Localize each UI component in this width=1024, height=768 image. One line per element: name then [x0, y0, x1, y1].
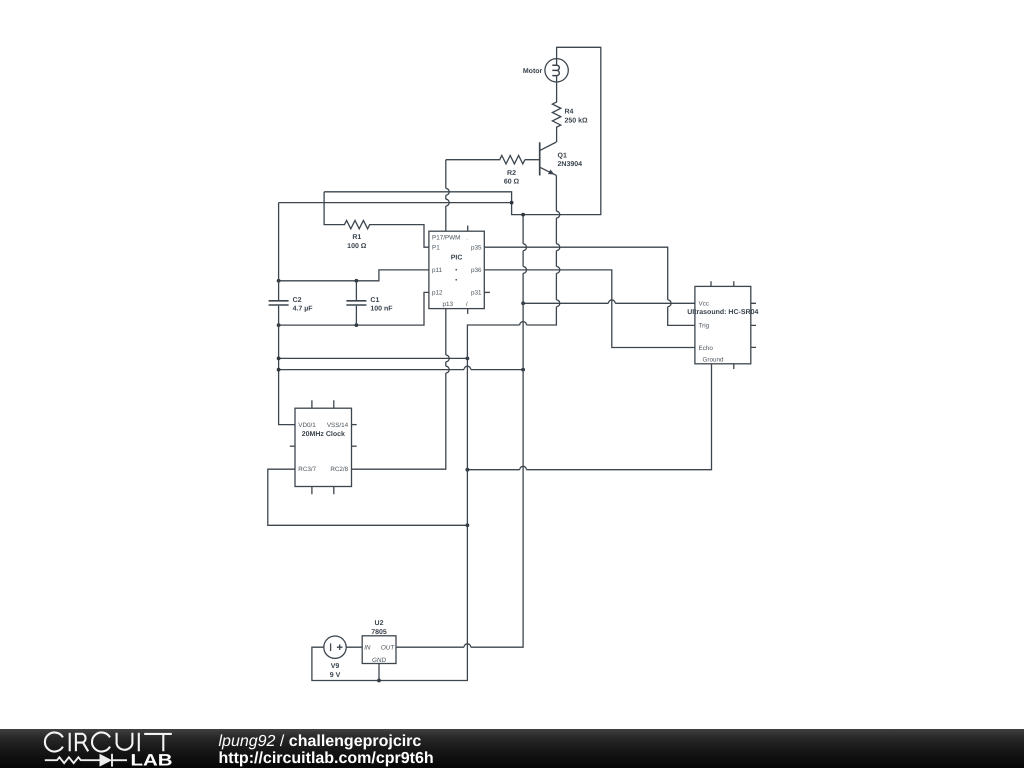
- svg-text:RC3/7: RC3/7: [298, 466, 316, 473]
- pin stub: clock right mid: [352, 445, 357, 447]
- svg-text:/: /: [466, 301, 468, 308]
- svg-text:R1: R1: [352, 234, 361, 241]
- pin stubs: ultrasound right: [751, 303, 756, 347]
- pin stub: clock VSS/14: [352, 424, 357, 426]
- junction: wire B joins vertical: [510, 201, 514, 205]
- svg-text:p13: p13: [442, 301, 453, 308]
- svg-text:U2: U2: [375, 620, 384, 627]
- junction: C1 top: [355, 279, 359, 283]
- wire: OUT to 5V rail up to motor loop, hops over gnd rail and p35/p36: [396, 215, 527, 648]
- wire: p35 to Trig: [484, 247, 695, 325]
- svg-text:C2: C2: [293, 297, 302, 304]
- capacitor C2: [269, 301, 289, 305]
- svg-text:p31: p31: [471, 290, 482, 297]
- svg-text:R4: R4: [565, 109, 574, 116]
- wire: gnd distribution horizontal: [279, 357, 468, 359]
- wire: R1 upper branch: [279, 202, 512, 204]
- svg-text:100 nF: 100 nF: [370, 306, 393, 313]
- svg-text:V9: V9: [331, 663, 340, 670]
- wire: ultrasound Ground pin down and left with hop over 5V rail: [467, 364, 711, 470]
- wire: p12 to C1/C2 bottoms: [279, 292, 429, 325]
- svg-text:http://circuitlab.com/cpr9t6h: http://circuitlab.com/cpr9t6h: [219, 750, 434, 767]
- junction: 5V wire to rail: [521, 368, 525, 372]
- junction: C1 bottom: [355, 323, 359, 327]
- junction: ground wire to gnd rail: [466, 468, 470, 472]
- wire: V+ top loop from motor around to base net: [324, 47, 601, 214]
- svg-text:P17/PWM: P17/PWM: [432, 234, 460, 241]
- junction: right end gnd wire: [466, 357, 470, 361]
- logo resistor+diode symbol: [45, 754, 127, 767]
- footer bar: [0, 729, 1024, 768]
- svg-text:250 kΩ: 250 kΩ: [565, 117, 589, 125]
- svg-text:Q1: Q1: [558, 152, 567, 159]
- op-amp-style IC box: PIC U1: [429, 231, 484, 308]
- motor M1: [545, 59, 568, 82]
- svg-text:9 V: 9 V: [330, 672, 341, 679]
- svg-text:p11: p11: [432, 267, 443, 274]
- svg-text:VSS/14: VSS/14: [327, 422, 349, 429]
- logo CIRCUIT thin letters: [45, 733, 172, 752]
- junction: left end 5V wire: [277, 368, 281, 372]
- svg-text:Ground: Ground: [703, 356, 725, 363]
- pin stub: ultrasound bottom right: [733, 364, 735, 369]
- junction: left end gnd wire: [277, 357, 281, 361]
- svg-text:R2: R2: [507, 170, 516, 177]
- transistor Q1: [525, 142, 557, 176]
- svg-text:p35: p35: [471, 245, 482, 252]
- svg-text:OUT: OUT: [381, 645, 395, 652]
- wire: RC3/7 loop to gnd rail: [268, 469, 468, 525]
- wire: p11 to C1/C2 tops: [279, 270, 429, 281]
- wire: Vcc from 5V rail with hop over echo column: [523, 300, 695, 303]
- IC box: 20MHz Clock: [295, 408, 352, 486]
- wire: p36 to Echo: [484, 270, 695, 348]
- resistor R4: [552, 82, 560, 142]
- resistor R1: [324, 192, 429, 247]
- svg-text:.: .: [466, 234, 468, 241]
- regulator U2 7805: [362, 636, 396, 664]
- svg-text:PIC: PIC: [451, 254, 463, 261]
- svg-text:Ultrasound: HC-SR04: Ultrasound: HC-SR04: [687, 308, 758, 316]
- pin stub: clock left mid: [290, 445, 295, 447]
- svg-text:IN: IN: [364, 645, 371, 652]
- wire: C2 column down to clock VD0/1: [279, 203, 295, 425]
- svg-text:VD0/1: VD0/1: [298, 422, 316, 429]
- junction: 5V rail to motor loop: [521, 213, 525, 217]
- wire: 5V distribution horizontal with hop over gnd rail: [279, 366, 523, 369]
- svg-text:4.7 µF: 4.7 µF: [293, 306, 314, 313]
- svg-text:Echo: Echo: [699, 345, 714, 352]
- capacitor C1: [346, 281, 366, 325]
- junction: C2 top: [277, 279, 281, 283]
- pin stub: PIC top second pin: [467, 226, 469, 232]
- svg-text:Vcc: Vcc: [699, 301, 710, 308]
- svg-text:7805: 7805: [371, 629, 387, 636]
- svg-text:GND: GND: [372, 657, 386, 664]
- pin stubs: clock bottom: [312, 487, 334, 495]
- pin stub: PIC p31: [484, 291, 490, 293]
- IC box: Ultrasound HC-SR04: [695, 286, 751, 363]
- junction: Vcc taps 5V rail: [521, 301, 525, 305]
- wire: emitter/gnd rail with hops, to V9 minus: [312, 175, 560, 680]
- wire: p13 down to RC2/8 with two hops: [352, 309, 450, 470]
- wire: R2 to PIC top pin (vertical with two hops): [446, 160, 449, 232]
- svg-text:Motor: Motor: [523, 68, 543, 75]
- svg-text:100 Ω: 100 Ω: [347, 243, 367, 250]
- svg-text:p36: p36: [471, 267, 482, 274]
- svg-text:RC2/8: RC2/8: [330, 466, 348, 473]
- wire: U2 GND pin: [378, 664, 380, 681]
- svg-text:Trig: Trig: [699, 323, 710, 330]
- svg-text:20MHz Clock: 20MHz Clock: [302, 430, 345, 438]
- pin stubs: ultrasound top: [711, 281, 734, 286]
- svg-text:C1: C1: [370, 297, 379, 304]
- junction: clock bottom wire to gnd rail: [466, 523, 470, 527]
- svg-text:lpung92 / challengeprojcirc: lpung92 / challengeprojcirc: [219, 733, 422, 750]
- resistor R2: [446, 156, 525, 164]
- svg-text:p12: p12: [432, 290, 443, 297]
- junction: C2 bottom: [277, 323, 281, 327]
- pin stubs: clock top: [312, 400, 334, 408]
- svg-text:60 Ω: 60 Ω: [504, 179, 520, 186]
- svg-text:P1: P1: [432, 245, 440, 252]
- svg-text:2N3904: 2N3904: [558, 161, 583, 168]
- pin stub: PIC bottom second pin: [467, 309, 469, 314]
- svg-text:LAB: LAB: [131, 752, 173, 768]
- voltage source V9: [324, 636, 362, 658]
- junction: U2 GND to bottom wire: [377, 679, 381, 683]
